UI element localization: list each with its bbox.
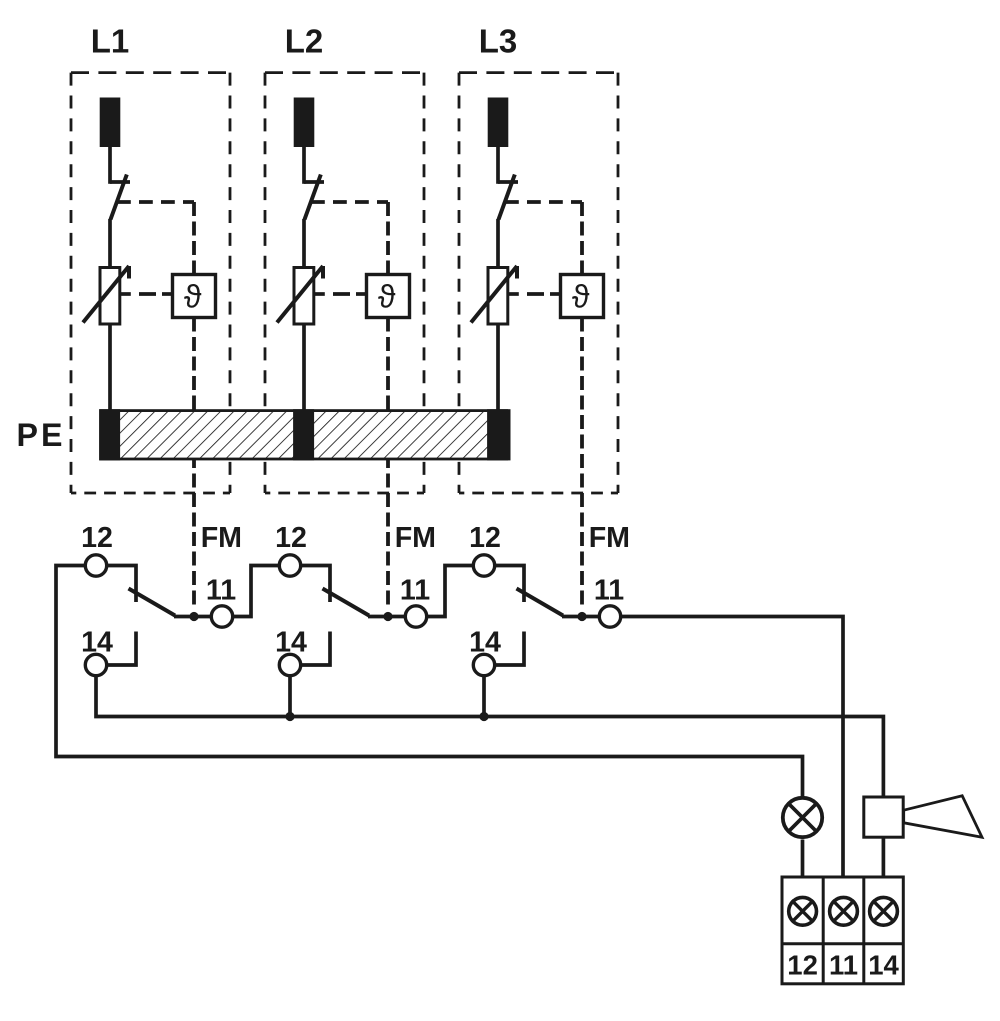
svg-text:L1: L1	[91, 23, 130, 60]
PE equipotential bus bar (hatched)	[101, 411, 509, 459]
junction dot 14 bus c3	[479, 712, 488, 721]
svg-text:ϑ: ϑ	[572, 279, 590, 315]
svg-text:ϑ: ϑ	[378, 279, 396, 315]
wire	[496, 146, 500, 184]
terminal block	[782, 877, 903, 984]
wire lamp to terminal 12	[801, 840, 805, 878]
FM signal dashed line L3	[580, 318, 584, 609]
terminal circle 12	[85, 555, 106, 576]
terminal circle 11	[211, 606, 232, 627]
terminal circle 11	[599, 606, 620, 627]
wire	[302, 146, 306, 184]
varistor L2	[294, 268, 314, 325]
wire 11 bus to terminal	[621, 617, 843, 878]
wire	[496, 219, 500, 268]
wire	[108, 146, 112, 184]
PE bar connection pad L1	[99, 409, 120, 460]
thermal monitor box (theta) L3	[561, 275, 604, 318]
terminal circle 11	[405, 606, 426, 627]
horn / buzzer	[864, 797, 903, 837]
mechanical linkage dashed line L1	[117, 200, 194, 204]
wire 12 to switch stub	[107, 566, 136, 603]
thermal monitor box (theta) L1	[173, 275, 216, 318]
wire dot to 11	[194, 615, 211, 619]
junction dot FM 2	[383, 612, 392, 621]
svg-text:FM: FM	[201, 522, 242, 554]
junction dot 14 bus c2	[285, 712, 294, 721]
changeover switch blade 2	[323, 589, 370, 616]
thermal disconnect switch L1	[110, 180, 130, 184]
wire 12 bus left drop	[56, 566, 803, 797]
terminal pin L2	[294, 98, 315, 148]
thermal monitor box (theta) L2	[367, 275, 410, 318]
varistor L1	[100, 268, 120, 325]
wire 12 to switch stub	[301, 566, 330, 603]
PE bar connection pad L2	[293, 409, 314, 460]
thermal disconnect switch L2	[304, 180, 324, 184]
wire	[302, 219, 306, 268]
wire 14 drop contact2	[288, 676, 292, 717]
svg-text:14: 14	[868, 949, 899, 980]
wire dot to 11	[388, 615, 405, 619]
svg-text:12: 12	[275, 522, 307, 554]
FM signal dashed line L1	[192, 318, 196, 609]
svg-text:12: 12	[81, 522, 113, 554]
dashed enclosure box L1	[71, 71, 230, 74]
wire 14 drop contact3	[482, 676, 486, 717]
wire 12 to switch stub	[495, 566, 524, 603]
open contact stub of 14	[107, 632, 136, 666]
terminal circle 14	[279, 654, 300, 675]
terminal circle 12	[473, 555, 494, 576]
mechanical linkage dashed line L2	[311, 200, 388, 204]
svg-text:ϑ: ϑ	[184, 279, 202, 315]
terminal circle 14	[85, 654, 106, 675]
svg-text:11: 11	[829, 949, 858, 980]
svg-text:PE: PE	[17, 417, 66, 453]
svg-text:12: 12	[469, 522, 501, 554]
terminal pin L3	[488, 98, 509, 148]
wire 11-chain contact1 to contact2	[233, 566, 280, 617]
varistor L3	[488, 268, 508, 325]
terminal pin L1	[100, 98, 121, 148]
svg-text:11: 11	[206, 575, 236, 607]
wire	[108, 324, 112, 412]
thermal disconnect switch L3	[498, 180, 518, 184]
svg-text:11: 11	[594, 575, 624, 607]
FM signal dashed line L2	[386, 318, 390, 609]
svg-text:12: 12	[787, 949, 818, 980]
varistor-theta link dashes	[508, 292, 519, 296]
terminal screw 14	[870, 897, 898, 925]
svg-text:11: 11	[400, 575, 430, 607]
svg-text:FM: FM	[589, 522, 630, 554]
terminal circle 14	[473, 654, 494, 675]
indicator lamp	[783, 798, 822, 837]
terminal screw 11	[830, 897, 858, 925]
open contact stub of 14	[495, 632, 524, 666]
terminal screw 12	[789, 897, 817, 925]
open contact stub of 14	[301, 632, 330, 666]
varistor-theta link dashes	[120, 292, 131, 296]
terminal circle 12	[279, 555, 300, 576]
wire 11-chain contact2 to contact3	[427, 566, 474, 617]
wire dot to 11	[582, 615, 599, 619]
changeover switch blade 1	[129, 589, 176, 616]
wire horn to terminal 14	[882, 837, 886, 877]
PE bar connection pad L3	[487, 409, 508, 460]
varistor-theta link dashes	[314, 292, 325, 296]
dashed enclosure box L2	[265, 71, 424, 74]
wire 14 bus	[96, 676, 883, 797]
wire	[302, 324, 306, 412]
junction dot FM 3	[577, 612, 586, 621]
junction dot FM 1	[189, 612, 198, 621]
svg-text:L3: L3	[479, 23, 518, 60]
mechanical linkage dashed line L3	[505, 200, 582, 204]
wire	[108, 219, 112, 268]
svg-text:L2: L2	[285, 23, 324, 60]
svg-text:FM: FM	[395, 522, 436, 554]
dashed enclosure box L3	[459, 71, 618, 74]
changeover switch blade 3	[517, 589, 564, 616]
wire	[496, 324, 500, 412]
